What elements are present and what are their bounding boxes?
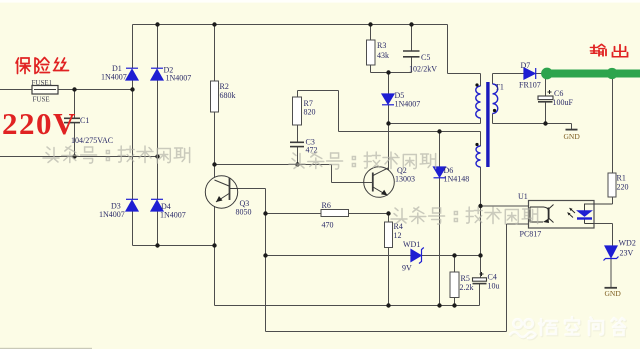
- svg-text:C1: C1: [80, 116, 89, 125]
- svg-text:12: 12: [394, 231, 402, 240]
- svg-text:R1: R1: [617, 174, 626, 183]
- svg-text:1N4007: 1N4007: [101, 73, 127, 82]
- svg-text:R3: R3: [377, 41, 386, 50]
- svg-text:1N4007: 1N4007: [160, 211, 186, 220]
- svg-text:GND: GND: [605, 289, 622, 298]
- svg-text:1N4007: 1N4007: [395, 100, 421, 109]
- svg-text:10u: 10u: [488, 282, 500, 291]
- svg-text:GND: GND: [564, 132, 581, 141]
- svg-text:WD2: WD2: [619, 239, 636, 248]
- svg-text:D7: D7: [521, 61, 531, 70]
- svg-text:23V: 23V: [620, 249, 634, 258]
- svg-text:FUSE1: FUSE1: [32, 79, 53, 87]
- svg-text:R2: R2: [220, 82, 229, 91]
- svg-text:FUSE: FUSE: [33, 96, 50, 104]
- svg-text:PC817: PC817: [520, 230, 542, 239]
- svg-text:820: 820: [304, 108, 316, 117]
- svg-text:1N4007: 1N4007: [99, 210, 125, 219]
- svg-text:104/275VAC: 104/275VAC: [71, 136, 113, 145]
- svg-text:U1: U1: [518, 192, 528, 201]
- svg-text:1N4007: 1N4007: [166, 74, 192, 83]
- svg-text:9V: 9V: [402, 264, 412, 273]
- svg-text:C4: C4: [488, 273, 497, 282]
- svg-text:43k: 43k: [377, 51, 389, 60]
- svg-text:680k: 680k: [220, 91, 236, 100]
- svg-text:R4: R4: [394, 222, 403, 231]
- svg-text:100uF: 100uF: [553, 98, 574, 107]
- svg-text:WD1: WD1: [403, 240, 420, 249]
- svg-text:470: 470: [322, 221, 334, 230]
- svg-text:220: 220: [617, 183, 629, 192]
- svg-text:220V: 220V: [2, 106, 77, 141]
- svg-text:13003: 13003: [395, 175, 415, 184]
- svg-text:C6: C6: [554, 89, 563, 98]
- svg-text:2.2k: 2.2k: [460, 283, 474, 292]
- svg-text:8050: 8050: [236, 208, 252, 217]
- svg-text:102/2kV: 102/2kV: [409, 65, 437, 74]
- svg-text:FR107: FR107: [519, 81, 541, 90]
- svg-text:R6: R6: [322, 201, 331, 210]
- svg-text:R5: R5: [461, 274, 470, 283]
- svg-text:C5: C5: [421, 53, 430, 62]
- svg-text:T1: T1: [495, 83, 504, 92]
- svg-text:1N4148: 1N4148: [444, 175, 470, 184]
